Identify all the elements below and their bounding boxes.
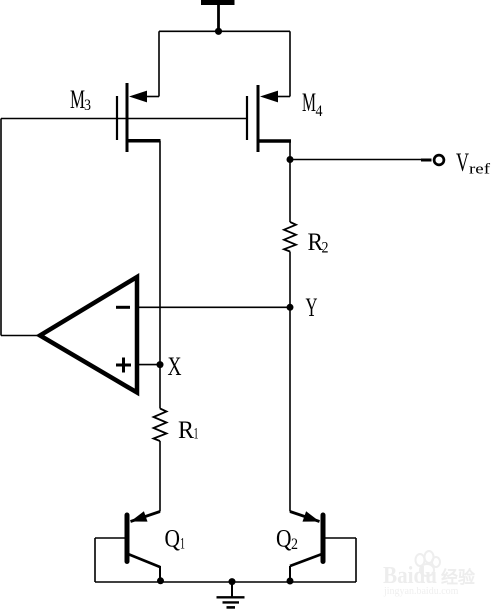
wire M4 source to rail [289,31,291,96]
label R2 [308,229,329,257]
svg-text:2: 2 [322,240,329,257]
wire bottom ground rail [95,581,356,583]
label Q1 [165,526,186,553]
node Q2 collector dot [287,578,294,585]
svg-text:M: M [302,88,316,117]
svg-text:R: R [178,417,194,444]
svg-text:1: 1 [194,426,199,443]
node Q1 collector dot [157,577,164,584]
svg-text:M: M [70,85,85,114]
wire Y to Q2 emitter [289,307,291,511]
wire to Vref terminal [290,159,432,162]
svg-text:2: 2 [291,536,298,553]
node Vref junction dot [287,156,294,163]
transistor Q1 [95,511,160,582]
wire M3 source to rail [158,31,160,96]
wire op-amp output to feedback [1,335,40,337]
svg-text:3: 3 [84,97,91,114]
wire inverting input to Y [136,306,290,308]
resistor R1 [154,409,167,442]
wire Q1 base loop [94,538,96,582]
node ground junction dot [229,578,236,585]
wire X to R1 [159,365,161,409]
svg-text:1: 1 [180,536,185,553]
svg-text:Q: Q [276,526,292,553]
terminal Vref circle [434,155,444,165]
transistor M3 [117,83,161,152]
transistor Q2 [290,511,356,582]
svg-text:Q: Q [165,526,181,553]
wire R2 to node Y [289,252,291,308]
svg-text:经验: 经验 [441,567,476,587]
wire non-inverting input to X [136,364,160,366]
svg-text:Y: Y [306,293,318,322]
label R1 [178,417,199,444]
wire feedback left vertical [0,119,2,336]
svg-text:V: V [456,148,469,177]
label M3 [70,85,91,114]
wire gate line M3-M4 [1,118,247,120]
wire Vref node to R2 [289,160,291,223]
wire R1 to Q1 emitter [159,441,161,512]
watermark baidu jingyan [383,551,476,597]
wire top supply rail [159,30,290,32]
wire M3 drain down to X [159,141,161,365]
node X junction dot [157,361,164,368]
power supply VDD bar [201,0,235,31]
node VDD junction dot [215,28,222,35]
wire M4 drain down [289,141,291,160]
svg-text:X: X [168,352,182,381]
label Q2 [276,526,298,554]
svg-text:jingyan.baidu.com: jingyan.baidu.com [383,586,459,597]
svg-text:4: 4 [316,103,323,120]
label M4 [302,88,323,120]
ground [217,582,245,607]
svg-text:ref: ref [469,162,490,178]
transistor M4 [247,85,291,152]
node Y junction dot [287,304,294,311]
wire Q2 base loop [355,538,357,582]
resistor R2 [284,222,296,252]
op-amp U1 [40,277,137,393]
label Vref [456,148,490,178]
